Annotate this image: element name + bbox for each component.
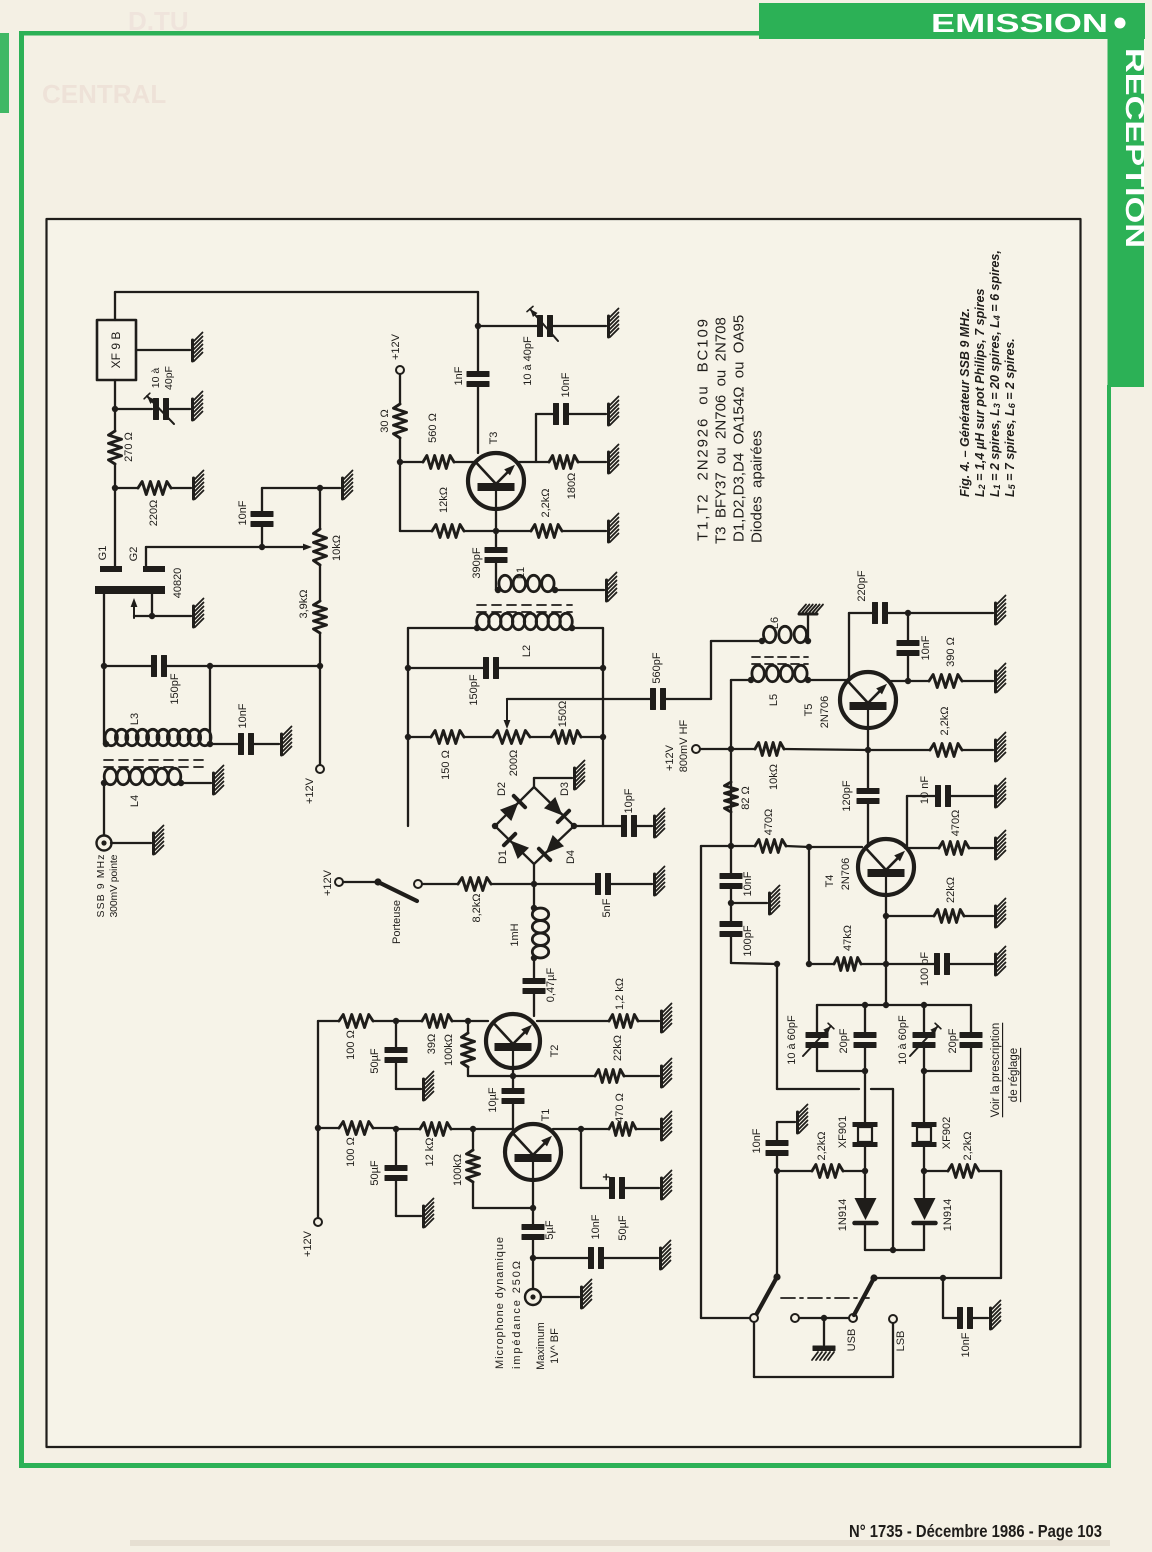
wire bbox=[808, 679, 849, 681]
wire bbox=[261, 488, 263, 512]
capacitor 560pF bbox=[651, 689, 656, 710]
wire bbox=[395, 1129, 397, 1167]
wire bbox=[537, 1020, 609, 1022]
wire bbox=[373, 1127, 396, 1129]
trimmer capacitor 10-60pF (R) bbox=[913, 1033, 935, 1038]
node (mic) bbox=[530, 1255, 536, 1261]
wire bbox=[534, 826, 574, 864]
svg-text:10 à: 10 à bbox=[150, 368, 162, 389]
wire bbox=[949, 963, 993, 965]
ground (5nF) bbox=[653, 874, 656, 895]
svg-text:Porteuse: Porteuse bbox=[391, 900, 403, 944]
wire bbox=[491, 883, 534, 885]
ground (ring top) bbox=[573, 768, 576, 789]
wire bbox=[817, 1004, 971, 1006]
svg-text:12kΩ: 12kΩ bbox=[438, 487, 450, 513]
wire bbox=[861, 963, 886, 965]
ground (10nF HF) bbox=[768, 893, 771, 914]
crystal XF902 bbox=[912, 1122, 937, 1127]
wire bbox=[319, 488, 321, 529]
wire bbox=[731, 679, 751, 681]
wire bbox=[512, 1102, 514, 1133]
wire bbox=[892, 1323, 894, 1377]
resistor 2,2kΩ (XF901) bbox=[812, 1165, 843, 1178]
capacitor 10µF bbox=[502, 1089, 524, 1094]
wire bbox=[923, 1047, 925, 1071]
wire bbox=[373, 1020, 422, 1022]
node (T4 emitter) bbox=[883, 913, 889, 919]
node (100Ω/50µF T2) bbox=[393, 1018, 399, 1024]
ground (pot top) bbox=[341, 478, 344, 499]
svg-text:2,2kΩ: 2,2kΩ bbox=[962, 1131, 974, 1160]
wire bbox=[454, 461, 476, 463]
svg-text:220Ω: 220Ω bbox=[148, 500, 160, 527]
transistor T2 bbox=[486, 1014, 540, 1068]
svg-text:40pF: 40pF bbox=[163, 366, 175, 390]
wire bbox=[581, 736, 603, 738]
wire bbox=[136, 349, 190, 351]
resistor 47kΩ bbox=[834, 958, 861, 971]
svg-text:20pF: 20pF bbox=[947, 1028, 959, 1053]
diode D4 bbox=[546, 835, 564, 853]
node (T3 emitter) bbox=[493, 528, 499, 534]
wire bbox=[923, 1005, 925, 1033]
wire bbox=[114, 380, 116, 431]
wire bbox=[146, 546, 308, 548]
wire bbox=[114, 292, 116, 320]
svg-text:150Ω: 150Ω bbox=[557, 701, 569, 728]
ground (220Ω) bbox=[192, 478, 195, 499]
svg-text:560 Ω: 560 Ω bbox=[427, 413, 439, 443]
wire bbox=[906, 796, 908, 849]
wire bbox=[809, 846, 862, 848]
separator dot bbox=[1115, 18, 1126, 29]
resistor 2,2kΩ (T5) bbox=[930, 744, 962, 757]
svg-text:+: + bbox=[599, 1173, 614, 1181]
wire bbox=[964, 915, 993, 917]
wire bbox=[776, 964, 778, 1089]
core L3/L4 bbox=[104, 759, 206, 761]
node (ring bottom) bbox=[531, 881, 537, 887]
wire bbox=[210, 665, 320, 667]
node (G1 divider) bbox=[112, 485, 118, 491]
svg-text:100 pF: 100 pF bbox=[919, 952, 931, 987]
inductor L1 bbox=[499, 575, 511, 591]
wire bbox=[848, 613, 850, 681]
wire bbox=[408, 627, 477, 629]
svg-text:D2: D2 bbox=[496, 782, 508, 796]
svg-text:180Ω: 180Ω bbox=[566, 473, 578, 500]
wire bbox=[553, 325, 606, 327]
wire bbox=[886, 915, 934, 917]
wire bbox=[777, 1170, 812, 1172]
capacitor 10nF (L3) bbox=[239, 734, 244, 755]
wire bbox=[603, 825, 622, 827]
svg-text:5nF: 5nF bbox=[601, 898, 613, 917]
wire bbox=[636, 1128, 659, 1130]
wire bbox=[104, 665, 152, 667]
wire bbox=[888, 680, 929, 682]
ground (osc trimmer) bbox=[191, 399, 194, 420]
wire bbox=[396, 1128, 420, 1130]
node (220pF/10nF) bbox=[905, 610, 911, 616]
inductor L6 bbox=[763, 626, 775, 642]
resistor 12kΩ (T3) bbox=[432, 525, 464, 538]
svg-text:2N706: 2N706 bbox=[840, 858, 852, 890]
svg-text:10 à 60pF: 10 à 60pF bbox=[786, 1015, 798, 1065]
wire bbox=[534, 883, 596, 885]
wire bbox=[972, 1317, 988, 1319]
ground (10pF) bbox=[653, 816, 656, 837]
wire bbox=[979, 1170, 1001, 1172]
svg-text:D1: D1 bbox=[497, 850, 509, 864]
wire bbox=[867, 750, 869, 790]
diode D1 bbox=[511, 841, 529, 859]
wire bbox=[710, 641, 712, 699]
node (XF901 bottom) bbox=[862, 1168, 868, 1174]
transistor T1 bbox=[505, 1124, 561, 1180]
svg-text:Fig. 4. – Générateur SSB 9 MHz: Fig. 4. – Générateur SSB 9 MHz. bbox=[958, 308, 972, 497]
EMISSION header bar bbox=[759, 3, 1145, 39]
svg-text:RECEPTION: RECEPTION bbox=[1120, 48, 1150, 248]
ground (10nF XF) bbox=[796, 1112, 799, 1133]
svg-text:20pF: 20pF bbox=[838, 1028, 850, 1053]
contact porteuse bbox=[414, 880, 422, 888]
svg-text:50µF: 50µF bbox=[369, 1160, 381, 1186]
wire bbox=[924, 1070, 971, 1072]
svg-text:470Ω: 470Ω bbox=[950, 810, 962, 837]
wire bbox=[114, 464, 116, 566]
svg-text:CENTRAL: CENTRAL bbox=[42, 79, 166, 109]
capacitor 5nF bbox=[596, 874, 601, 895]
wire bbox=[496, 530, 531, 532]
wire bbox=[166, 665, 210, 667]
node (L2 right/150pF) bbox=[600, 665, 606, 671]
wire bbox=[731, 902, 767, 904]
svg-text:Diodes apairées: Diodes apairées bbox=[749, 430, 766, 543]
svg-text:L4: L4 bbox=[129, 795, 141, 807]
wire bbox=[776, 1154, 778, 1171]
wire bbox=[472, 1129, 474, 1150]
scan edge band bottom bbox=[130, 1540, 1110, 1546]
svg-text:82 Ω: 82 Ω bbox=[740, 786, 752, 810]
wire bbox=[400, 461, 423, 463]
node (T1 collector) bbox=[578, 1126, 584, 1132]
wire bbox=[943, 1317, 958, 1319]
node (T5 emitter) bbox=[865, 747, 871, 753]
resistor 560Ω bbox=[423, 456, 454, 469]
svg-text:XF902: XF902 bbox=[941, 1117, 953, 1149]
svg-text:+12V: +12V bbox=[390, 333, 402, 360]
svg-text:G1: G1 bbox=[97, 546, 109, 561]
wire bbox=[809, 963, 834, 965]
svg-text:10nF: 10nF bbox=[960, 1332, 972, 1357]
node (USB ground) bbox=[821, 1315, 827, 1321]
ground (1,2kΩ) bbox=[660, 1011, 663, 1032]
svg-text:100kΩ: 100kΩ bbox=[443, 1034, 455, 1066]
node (switch out) bbox=[940, 1275, 946, 1281]
green border bottom bbox=[19, 1463, 1111, 1468]
svg-text:470 Ω: 470 Ω bbox=[614, 1093, 626, 1123]
node (filter bot L) bbox=[862, 1068, 868, 1074]
wire bbox=[553, 1128, 581, 1130]
wire bbox=[948, 795, 993, 797]
resistor 39Ω bbox=[422, 1015, 452, 1028]
capacitor 10nF (T3) bbox=[554, 404, 559, 425]
node (2,2k left) bbox=[774, 1168, 780, 1174]
svg-text:10pF: 10pF bbox=[623, 788, 635, 813]
wire bbox=[572, 627, 603, 629]
svg-text:USB: USB bbox=[846, 1329, 858, 1352]
wire bbox=[808, 847, 810, 964]
svg-text:10 à 40pF: 10 à 40pF bbox=[522, 336, 534, 386]
wire bbox=[864, 1223, 866, 1250]
terminal +12V (ampli) bbox=[314, 1218, 322, 1226]
svg-text:39Ω: 39Ω bbox=[426, 1034, 438, 1054]
wire bbox=[498, 667, 603, 669]
wire bbox=[871, 1088, 893, 1090]
node (tank right) bbox=[207, 663, 213, 669]
wire bbox=[905, 847, 939, 849]
svg-text:300mV pointe: 300mV pointe bbox=[108, 854, 120, 917]
capacitor 50µF (T1 out) bbox=[610, 1178, 615, 1199]
wire bbox=[816, 1005, 818, 1033]
svg-text:150pF: 150pF bbox=[468, 674, 480, 705]
svg-text:T3: T3 bbox=[488, 432, 500, 445]
svg-text:D1,D2,D3,D4 OA154Ω ou OA95: D1,D2,D3,D4 OA154Ω ou OA95 bbox=[731, 315, 748, 542]
wire bbox=[754, 1376, 893, 1378]
trimmer capacitor 10-40pF (osc) bbox=[154, 399, 159, 420]
svg-text:T2: T2 bbox=[549, 1045, 561, 1058]
wire bbox=[115, 408, 152, 410]
wire bbox=[209, 666, 211, 744]
core L5/L6 bbox=[752, 656, 808, 658]
wire bbox=[343, 881, 376, 883]
svg-text:1V^ BF: 1V^ BF bbox=[549, 1328, 561, 1364]
wire bbox=[777, 1088, 859, 1090]
svg-text:50µF: 50µF bbox=[369, 1048, 381, 1074]
wiper 200Ω bbox=[506, 699, 508, 724]
svg-text:50µF: 50µF bbox=[617, 1215, 629, 1241]
node (T5 collector) bbox=[905, 678, 911, 684]
wire bbox=[395, 1061, 397, 1089]
wire bbox=[318, 1127, 339, 1129]
wire bbox=[636, 825, 652, 827]
wire bbox=[962, 749, 993, 751]
wire bbox=[451, 1128, 473, 1130]
wire bbox=[581, 1187, 610, 1189]
node (82Ω bottom) bbox=[728, 843, 734, 849]
wire bbox=[924, 1170, 948, 1172]
wire bbox=[923, 1147, 925, 1198]
wire bbox=[473, 1128, 512, 1130]
wire bbox=[610, 883, 652, 885]
wire bbox=[467, 1020, 488, 1022]
capacitor 10pF bbox=[622, 816, 627, 837]
capacitor 50µF (T1) bbox=[385, 1166, 407, 1171]
wire bbox=[408, 736, 431, 738]
svg-text:Voir la prescription: Voir la prescription bbox=[990, 1023, 1002, 1118]
wire bbox=[535, 414, 537, 462]
wire bbox=[464, 530, 496, 532]
MOSFET 40820 gate1 bar bbox=[100, 566, 122, 572]
svg-text:de réglage: de réglage bbox=[1008, 1048, 1020, 1102]
wire bbox=[536, 413, 554, 415]
svg-text:+12V: +12V bbox=[322, 869, 334, 896]
svg-text:47kΩ: 47kΩ bbox=[842, 925, 854, 951]
capacitor 150pF (tank) bbox=[152, 656, 157, 677]
wire bbox=[849, 612, 873, 614]
wire bbox=[1000, 1171, 1002, 1278]
wire bbox=[580, 1129, 582, 1188]
capacitor 10nF (XF) bbox=[766, 1141, 788, 1146]
resistor 22kΩ (T4) bbox=[934, 910, 964, 923]
svg-text:LSB: LSB bbox=[895, 1331, 907, 1352]
wire bbox=[495, 787, 534, 826]
resistor 470Ω (T4 base) bbox=[755, 840, 786, 853]
capacitor 120pF bbox=[857, 789, 879, 794]
svg-text:+12V: +12V bbox=[664, 744, 676, 771]
svg-text:8,2kΩ: 8,2kΩ bbox=[471, 893, 483, 922]
wire bbox=[603, 1257, 658, 1259]
wire bbox=[776, 1171, 778, 1277]
wire bbox=[317, 1021, 319, 1218]
svg-text:L6: L6 bbox=[769, 617, 781, 629]
node (XF902 bottom) bbox=[921, 1168, 927, 1174]
wire bbox=[970, 1047, 972, 1071]
wire bbox=[512, 1068, 514, 1090]
svg-text:SSB 9 MHz: SSB 9 MHz bbox=[95, 855, 107, 918]
wire bbox=[399, 374, 401, 404]
wire bbox=[111, 842, 151, 844]
svg-text:N° 1735 - Décembre 1986 - Page: N° 1735 - Décembre 1986 - Page 103 bbox=[849, 1521, 1102, 1541]
capacitor 10nF (T4) bbox=[936, 786, 941, 807]
wire bbox=[602, 628, 604, 826]
svg-text:+12V: +12V bbox=[304, 777, 316, 804]
ground (L1) bbox=[605, 580, 608, 601]
wire bbox=[533, 958, 535, 980]
svg-text:2,2kΩ: 2,2kΩ bbox=[939, 706, 951, 735]
wire bbox=[700, 748, 731, 750]
capacitor 150pF (mod) bbox=[484, 658, 489, 679]
wire bbox=[867, 728, 869, 750]
wire bbox=[495, 561, 497, 590]
inductor L2 bbox=[477, 613, 489, 629]
svg-text:270 Ω: 270 Ω bbox=[123, 432, 135, 462]
resistor 10kΩ (T5) bbox=[755, 743, 784, 756]
ground (10nF T4) bbox=[994, 786, 997, 807]
wire bbox=[477, 292, 479, 373]
ground (mic) bbox=[580, 1287, 583, 1308]
wire bbox=[624, 1075, 659, 1077]
wire bbox=[467, 1067, 469, 1076]
wire bbox=[807, 616, 809, 641]
node (tank left) bbox=[101, 663, 107, 669]
node (100Ω/50µF T1) bbox=[393, 1126, 399, 1132]
svg-text:470Ω: 470Ω bbox=[763, 809, 775, 836]
wire bbox=[467, 1021, 469, 1033]
wire bbox=[799, 1317, 849, 1319]
wire bbox=[887, 612, 993, 614]
ground (L6) bbox=[799, 613, 817, 616]
wire bbox=[513, 1075, 595, 1077]
wire bbox=[730, 680, 732, 846]
node (ring right) bbox=[571, 823, 577, 829]
MOSFET 40820 gate2 bar bbox=[143, 566, 165, 572]
wire bbox=[885, 916, 887, 1005]
ground (470Ω T1) bbox=[660, 1119, 663, 1140]
node (XF9B bottom) bbox=[112, 406, 118, 412]
ground (T3 trimmer) bbox=[607, 316, 610, 337]
wire bbox=[753, 1322, 755, 1377]
resistor 150Ω (left) bbox=[431, 731, 464, 744]
wire bbox=[907, 654, 909, 681]
wire bbox=[532, 1180, 534, 1226]
wire bbox=[578, 461, 606, 463]
svg-text:T1,T2 2N2926 ou BC109: T1,T2 2N2926 ou BC109 bbox=[695, 319, 712, 541]
svg-text:10nF: 10nF bbox=[237, 500, 249, 525]
wire bbox=[171, 487, 191, 489]
svg-text:390pF: 390pF bbox=[471, 547, 483, 578]
potentiometer 200Ω bbox=[493, 731, 530, 744]
inductor L4 bbox=[104, 768, 116, 784]
svg-text:22kΩ: 22kΩ bbox=[945, 877, 957, 903]
node (L2 left/150pF) bbox=[405, 665, 411, 671]
node (G2 wire) bbox=[259, 544, 265, 550]
wire bbox=[408, 667, 484, 669]
svg-text:10nF: 10nF bbox=[742, 871, 754, 896]
ground (220pF) bbox=[994, 603, 997, 624]
wire bbox=[731, 748, 755, 750]
wire bbox=[700, 846, 702, 1318]
switch link bbox=[781, 1297, 869, 1299]
diode 1N914 (L) bbox=[855, 1198, 877, 1220]
wire bbox=[533, 864, 535, 884]
node (osc collector) bbox=[475, 323, 481, 329]
svg-text:220pF: 220pF bbox=[856, 570, 868, 601]
resistor 22kΩ (T2) bbox=[595, 1070, 624, 1083]
svg-text:Maximum: Maximum bbox=[535, 1322, 547, 1370]
wire bbox=[477, 385, 479, 453]
ground (50µF T1) bbox=[422, 1206, 425, 1227]
node (T2 emitter) bbox=[510, 1073, 516, 1079]
svg-text:120pF: 120pF bbox=[841, 780, 853, 811]
resistor 470Ω (T1) bbox=[609, 1123, 636, 1136]
wire bbox=[261, 526, 263, 547]
node (T3 base) bbox=[397, 459, 403, 465]
resistor 8,2kΩ bbox=[458, 878, 491, 891]
node (filter top 20pF L) bbox=[862, 1002, 868, 1008]
inductor 1mH bbox=[532, 908, 548, 920]
figure frame bbox=[47, 219, 1081, 1447]
terminal +12V (porteuse) bbox=[335, 878, 343, 886]
capacitor 50µF (T2) bbox=[385, 1048, 407, 1053]
wire bbox=[885, 895, 887, 916]
wire bbox=[534, 787, 574, 826]
wire bbox=[532, 1238, 534, 1289]
svg-text:L1: L1 bbox=[515, 567, 527, 579]
wire bbox=[865, 1249, 924, 1251]
capacitor 220pF bbox=[873, 603, 878, 624]
wire bbox=[731, 963, 777, 964]
wire bbox=[907, 795, 935, 797]
green border left bbox=[19, 31, 24, 1468]
capacitor 390pF bbox=[485, 548, 507, 553]
wire bbox=[396, 1088, 421, 1090]
capacitor 10nF (mic) bbox=[589, 1248, 594, 1269]
transistor T5 bbox=[840, 672, 896, 728]
svg-text:XF901: XF901 bbox=[837, 1116, 849, 1148]
